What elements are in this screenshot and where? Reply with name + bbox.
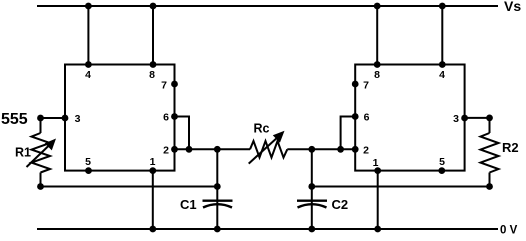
node C2 top junction	[308, 146, 315, 153]
wire U1 pin2 to Rc left	[175, 148, 251, 150]
node U1 pin1 ground junction	[149, 226, 156, 233]
node U2 pin4	[439, 61, 446, 68]
wire U1 pin8 drop from Vs rail	[152, 6, 154, 65]
node Vs rail / U1 pin4 junction	[85, 3, 92, 10]
svg-text:7: 7	[363, 80, 369, 92]
svg-text:8: 8	[149, 69, 155, 81]
wire U1 pin6 jog	[175, 117, 190, 150]
capacitor C1 lead	[216, 149, 218, 229]
op-amp U1 555 IC body	[65, 65, 175, 171]
wire U2 pin1 to ground rail	[377, 171, 379, 229]
resistor R1 (variable, with arrow)	[27, 118, 57, 187]
node Vs rail / U1 pin8 junction	[150, 3, 157, 10]
node U1 pin7	[171, 81, 178, 88]
node C2 / R2 wire junction	[308, 183, 315, 190]
node C1 ground junction	[214, 226, 221, 233]
svg-text:8: 8	[374, 69, 380, 81]
svg-text:6: 6	[364, 112, 370, 124]
node U1 pin1	[149, 167, 156, 174]
svg-text:R1: R1	[15, 146, 31, 160]
node U2 pin3	[461, 115, 468, 122]
svg-text:1: 1	[373, 157, 379, 169]
wire U1 pin4 drop from Vs rail	[87, 6, 89, 65]
svg-text:555: 555	[1, 111, 28, 128]
wire U2 pin6 jog	[341, 117, 356, 150]
wire U2 pin8 drop from Vs rail	[376, 6, 378, 65]
svg-text:4: 4	[439, 69, 445, 81]
node U1 pin6 loop junction	[186, 146, 193, 153]
node U2 pin8	[374, 61, 381, 68]
wire Rc right to U2 pin2	[287, 148, 355, 150]
capacitor C2 plates	[297, 201, 327, 208]
node U2 pin2	[352, 146, 359, 153]
wire bottom 0V rail	[37, 228, 498, 230]
node U1 pin5	[85, 167, 92, 174]
node U2 pin1 ground junction	[374, 226, 381, 233]
wire U2 pin4 drop from Vs rail	[441, 6, 443, 65]
node R2 top junction	[486, 115, 493, 122]
wire C2 top node to R2 bottom	[312, 186, 490, 188]
svg-text:2: 2	[163, 145, 169, 157]
svg-text:4: 4	[85, 69, 91, 81]
node R2 bottom junction	[486, 183, 493, 190]
node C2 ground junction	[308, 226, 315, 233]
node U1 pin8	[150, 61, 157, 68]
node U2 pin6 loop junction	[337, 146, 344, 153]
node C1 / R1 wire junction	[214, 183, 221, 190]
svg-text:C2: C2	[332, 197, 349, 212]
node U1 pin6	[171, 113, 178, 120]
node U1 pin3	[62, 115, 69, 122]
node U2 pin6	[352, 113, 359, 120]
resistor Rc (variable, with arrow)	[249, 131, 288, 164]
svg-text:3: 3	[75, 113, 81, 125]
svg-text:0 V: 0 V	[500, 225, 518, 237]
wire Vs top supply rail	[37, 5, 498, 7]
svg-text:Vs: Vs	[504, 0, 521, 14]
svg-text:3: 3	[453, 113, 459, 125]
node U2 pin1	[374, 167, 381, 174]
node Vs rail / U2 pin4 junction	[439, 3, 446, 10]
svg-text:C1: C1	[180, 197, 197, 212]
svg-text:6: 6	[163, 112, 169, 124]
svg-text:1: 1	[150, 156, 156, 168]
resistor R2	[481, 118, 499, 187]
capacitor C2 lead	[311, 149, 313, 229]
svg-text:Rc: Rc	[254, 122, 270, 136]
wire U1 pin1 to ground rail	[152, 171, 154, 229]
node U2 pin7	[352, 81, 359, 88]
op-amp U2 555 IC body	[355, 65, 464, 171]
svg-text:7: 7	[161, 80, 167, 92]
node U1 pin2	[171, 146, 178, 153]
node R1 bottom junction	[37, 183, 44, 190]
svg-text:2: 2	[363, 145, 369, 157]
wire R1 bottom to C1 top node	[41, 186, 218, 188]
svg-text:5: 5	[439, 156, 445, 168]
node U1 pin4	[85, 61, 92, 68]
node U2 pin5	[438, 167, 445, 174]
node R1 top junction	[37, 115, 44, 122]
node C1 top junction	[214, 146, 221, 153]
node Vs rail / U2 pin8 junction	[374, 3, 381, 10]
svg-text:5: 5	[85, 156, 91, 168]
wire U1 pin3 to R1 top	[41, 117, 66, 119]
svg-text:R2: R2	[502, 140, 519, 155]
wire U2 pin3 to R2 top	[465, 117, 490, 119]
capacitor C1 plates	[203, 201, 233, 208]
